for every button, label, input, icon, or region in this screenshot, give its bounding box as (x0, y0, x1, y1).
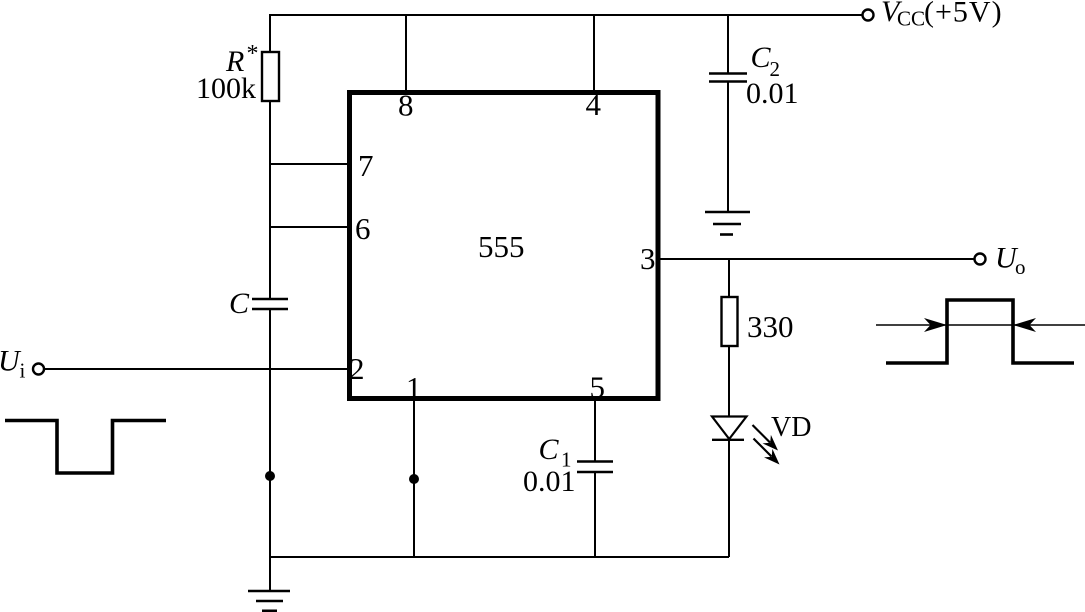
capacitor C2 (709, 72, 747, 74)
svg-text:0.01: 0.01 (746, 77, 799, 110)
svg-text:CC: CC (897, 7, 925, 31)
svg-text:4: 4 (586, 87, 602, 122)
svg-text:C: C (751, 41, 772, 74)
wire left rail middle (269, 101, 271, 299)
svg-text:6: 6 (355, 211, 371, 246)
svg-text:(+5V): (+5V) (924, 0, 1003, 29)
IC U1 555 box (350, 93, 659, 399)
pin 5 wire upper (594, 399, 596, 462)
svg-text:C: C (539, 433, 560, 466)
wire input Ui to pin 2 (45, 368, 350, 370)
pin 5 wire lower (594, 472, 596, 557)
pin 8 wire (405, 15, 407, 92)
svg-text:7: 7 (358, 148, 374, 183)
capacitor C1 (577, 460, 613, 462)
pin 4 wire (593, 15, 595, 92)
wire pin7 stub (270, 163, 350, 165)
svg-text:555: 555 (478, 229, 525, 264)
wire left rail upper (269, 14, 271, 53)
wire pin6 stub (270, 226, 350, 228)
svg-text:i: i (20, 359, 26, 383)
waveform width measure line (876, 324, 1085, 326)
svg-text:*: * (247, 41, 259, 67)
measure arrowhead right (1013, 318, 1036, 332)
waveform output Uo (886, 300, 1074, 363)
pin 1 wire (413, 399, 415, 557)
svg-text:100k: 100k (196, 72, 256, 105)
junction dot on left rail (265, 471, 275, 481)
terminal VCC (863, 10, 874, 21)
capacitor C (252, 298, 288, 300)
svg-text:VD: VD (771, 412, 811, 443)
LED VD diode (712, 417, 747, 440)
wire 330 to LED (728, 346, 730, 417)
svg-text:8: 8 (398, 88, 414, 123)
LED arrow 1 (753, 425, 779, 451)
svg-text:5: 5 (590, 370, 606, 405)
ground main (248, 591, 290, 611)
svg-text:o: o (1015, 255, 1026, 279)
wire top rail (270, 14, 862, 16)
junction dot on pin1 wire (409, 474, 419, 484)
svg-text:330: 330 (747, 309, 794, 344)
svg-text:C: C (229, 287, 250, 320)
resistor 330 (722, 297, 738, 346)
svg-text:0.01: 0.01 (523, 465, 576, 498)
LED arrow 2 (754, 439, 780, 465)
svg-text:3: 3 (640, 241, 656, 276)
wire 330 branch upper (728, 259, 730, 298)
capacitor C2 wire lower (727, 82, 729, 213)
capacitor C2 wire upper (727, 15, 729, 74)
wire left rail lower (269, 309, 271, 591)
waveform input Ui (5, 421, 166, 474)
svg-text:2: 2 (349, 351, 365, 386)
ground C2 (705, 212, 750, 235)
wire LED to bottom (728, 440, 730, 557)
wire pin 3 to Uo (658, 258, 974, 260)
measure arrowhead left (924, 318, 947, 332)
terminal Uo (975, 254, 986, 265)
terminal Ui (33, 364, 44, 375)
wire bottom rail (270, 556, 729, 558)
resistor R* (262, 52, 279, 101)
